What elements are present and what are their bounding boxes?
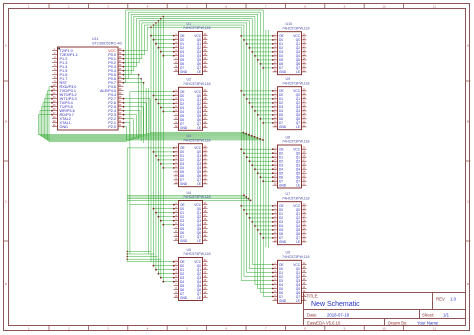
IC U1 74HC573PW,118 latch [174,32,208,75]
wire U10 D6 tap [260,63,274,65]
svg-text:LE: LE [197,126,201,130]
svg-text:GND: GND [180,239,188,243]
svg-text:LE: LE [197,182,201,186]
svg-text:TITLE:: TITLE: [306,294,319,299]
wire VCC bus [123,26,242,280]
wire U9 D4 tap [254,110,274,112]
wire P0.7 bus [123,10,264,297]
title block Drawn By cell [388,321,439,326]
wire control band C line 2 [127,253,155,254]
svg-text:74HC573PW,118: 74HC573PW,118 [183,252,211,256]
svg-text:74HC573PW,118: 74HC573PW,118 [183,82,211,86]
wire U10 D1 tap [246,43,274,45]
svg-text:GND: GND [279,240,287,244]
svg-text:74HC573PW,118: 74HC573PW,118 [282,140,310,144]
svg-text:74HC573PW,118: 74HC573PW,118 [282,26,310,30]
wire U8 D2 tap [249,160,274,162]
svg-text:74HC573PW,118: 74HC573PW,118 [282,255,310,259]
wire U10 D4 tap [254,55,274,57]
wire U8 D3 tap [251,164,273,166]
svg-text:EasyEDA V5.6.10: EasyEDA V5.6.10 [307,321,341,326]
wire U4 OE tap [130,204,175,206]
svg-text:U11: U11 [92,37,99,41]
IC U4 74HC573PW,118 latch [174,201,208,244]
wire P0.0 bus [123,24,244,276]
svg-text:GND: GND [279,299,287,303]
wire U2 D3 tap [160,107,175,109]
svg-text:LE: LE [296,299,300,303]
wire P3.0 net [49,86,127,142]
svg-text:10: 10 [382,4,386,8]
wire control band C line 3 [127,256,158,257]
wire U9 OE tap [240,90,273,92]
svg-text:74HC573PW,118: 74HC573PW,118 [183,195,211,199]
wire bus line [146,88,148,254]
wire control band B line 3 [127,198,249,200]
wire U5 OE tap [127,261,175,263]
svg-text:GND: GND [180,182,188,186]
wire U10 D7 tap [262,67,273,69]
wire U1 D1 tap [155,43,175,45]
svg-text:GND: GND [180,70,188,74]
wire P2.6 net [123,102,248,135]
title block outline [304,293,466,326]
wire U5 D1 tap [155,269,175,271]
wire U10 D5 tap [257,59,274,61]
wire U9 D1 tap [246,98,274,100]
wire P3.7 net [39,114,151,135]
wire U8 D6 tap [260,176,274,178]
wire U9 D6 tap [260,118,274,120]
wire U4 D1 tap [155,212,175,214]
svg-text:A: A [467,43,469,47]
wire U7 D7 tap [262,237,273,239]
wire U7 OE tap [240,205,273,207]
wire U8 D0 tap [243,152,274,154]
IC U9 74HC573PW,118 latch [273,87,307,130]
svg-text:11: 11 [433,4,436,8]
wire control band C line 1 [127,251,152,252]
wire U6 D4 tap [255,284,274,286]
IC U10 74HC573PW,118 latch [273,32,307,75]
svg-text:GND: GND [279,70,287,74]
wire U3 D3 tap [160,163,175,165]
wire U8 D5 tap [257,172,274,174]
IC U11 STC89C52RC-40 microcontroller [52,47,124,130]
wire U6 OE tap [252,264,273,266]
wire P2.5 net [123,106,250,136]
svg-text:LE: LE [296,125,300,129]
label U2 designator [187,78,192,82]
wire U8 D1 tap [246,156,274,158]
label U7 designator [286,192,291,196]
IC U2 74HC573PW,118 latch [174,87,208,130]
title block Date row [307,312,350,317]
wire U7 D1 tap [246,213,274,215]
wire U9 D3 tap [251,106,273,108]
svg-text:11: 11 [433,326,436,330]
svg-text:LE: LE [197,70,201,74]
wire U6 D5 tap [258,288,274,290]
wire P0.5 bus [123,14,258,288]
label U3 part name [183,138,211,142]
wire P2.0 net [123,126,264,141]
wire U2 OE tap [130,91,175,93]
svg-text:LE: LE [296,240,300,244]
wire U10 D2 tap [249,47,274,49]
wire U2 D1 tap [155,99,175,101]
wire U1 D4 tap [162,55,174,57]
label U9 part name [282,81,310,85]
wire U9 D5 tap [257,114,274,116]
svg-text:2018-07-18: 2018-07-18 [327,312,350,317]
wire U7 D5 tap [257,229,274,231]
svg-text:10: 10 [382,326,386,330]
svg-text:Date:: Date: [307,312,317,317]
label U7 part name [282,196,310,200]
title block Sheet cell [422,312,450,317]
wire P2.3 net [123,114,256,138]
wire U8 D7 tap [262,180,273,182]
wire P2.4 net [123,110,253,137]
wire U4 D2 tap [158,216,175,218]
wire U4 D4 tap [162,224,174,226]
wire U9 D2 tap [249,102,274,104]
wire P3.2 net [46,94,134,140]
wire U6 D1 tap [247,272,274,274]
wire U10 OE tap [240,35,273,37]
wire U3 D0 tap [153,151,175,153]
wire P3.6 net [40,110,147,136]
wire U1 D2 tap [158,47,175,49]
svg-text:LE: LE [197,239,201,243]
wire U7 D4 tap [254,225,274,227]
wire control band C line 4 [127,259,161,260]
svg-text:P2.0: P2.0 [108,125,116,129]
label U8 designator [286,135,291,139]
wire U2 D0 tap [153,95,175,97]
wire U6 D3 tap [241,280,273,282]
wire P2.1 net [123,122,262,140]
label U5 part name [183,252,211,256]
label U1 part name [183,26,211,30]
wire P2.7 net [123,98,245,134]
wire P0.1 bus [123,22,247,272]
wire U5 D4 tap [162,281,174,283]
label U2 part name [183,82,211,86]
svg-text:LE: LE [296,70,300,74]
wire U8 OE tap [240,148,273,150]
svg-text:REV: REV [436,297,445,302]
wire P0.4 bus [123,16,255,285]
svg-text:74HC573PW,118: 74HC573PW,118 [282,81,310,85]
label U3 designator [187,134,192,138]
wire U6 D0 tap [249,268,273,270]
svg-text:GND: GND [279,125,287,129]
wire U9 D0 tap [243,94,274,96]
label U10 designator [286,22,293,26]
wire P3.5 net [42,106,144,137]
IC U7 74HC573PW,118 latch [273,202,307,245]
IC U5 74HC573PW,118 latch [174,258,208,301]
label U11 part name [92,42,122,46]
wire U7 D6 tap [260,233,274,235]
label U10 part name [282,26,310,30]
svg-text:A: A [5,43,7,47]
wire U2 D4 tap [162,111,174,113]
label U5 designator [187,248,192,252]
wire U7 D2 tap [249,217,274,219]
wire control band B line 2 [127,196,247,198]
label U4 part name [183,195,211,199]
wire U10 D0 tap [243,39,274,41]
svg-text:1/1: 1/1 [443,312,450,317]
IC U8 74HC573PW,118 latch [273,145,307,188]
svg-text:LE: LE [296,184,300,188]
wire U9 D7 tap [262,122,273,124]
wire U1 D0 tap [153,39,175,41]
label U11 designator [92,37,99,41]
wire U6 D7 tap [263,296,273,298]
wire U5 D0 tap [153,265,175,267]
wire P2.2 net [123,118,259,139]
label U1 designator [187,22,192,26]
wire U10 D3 tap [251,51,273,53]
svg-text:Your Name: Your Name [417,321,439,326]
label U4 designator [187,191,192,195]
wire control band B line 4 [127,200,251,202]
wire U3 D4 tap [162,167,174,169]
svg-text:GND: GND [60,125,69,129]
svg-text:74HC573PW,118: 74HC573PW,118 [282,196,310,200]
svg-text:B: B [5,120,7,124]
wire U6 D2 tap [244,276,274,278]
title block REV label [436,297,457,302]
wire U3 OE tap [127,147,175,149]
wire P3.4 net [43,102,140,138]
wire U5 D2 tap [158,273,175,275]
label U9 designator [286,77,291,81]
title block title text [311,301,360,308]
svg-text:74HC573PW,118: 74HC573PW,118 [183,138,211,142]
wire U3 D2 tap [158,159,175,161]
title block TITLE label [306,294,319,299]
wire U2 D2 tap [158,103,175,105]
wire P3.3 net [45,98,137,139]
label U6 part name [282,255,310,259]
wire U1 D3 tap [160,51,175,53]
IC U3 74HC573PW,118 latch [174,144,208,187]
wire control band B line 1 [127,194,245,196]
title block EasyEDA version [307,321,341,326]
wire P0.3 bus [123,18,253,278]
wire P0.2 bus [123,20,250,274]
wire U4 D3 tap [160,220,175,222]
svg-text:1.0: 1.0 [450,297,457,302]
wire U6 D6 tap [260,292,273,294]
svg-text:Sheet:: Sheet: [422,312,434,317]
wire U4 D0 tap [153,208,175,210]
svg-text:GND: GND [180,126,188,130]
wire U7 D0 tap [243,209,274,211]
svg-text:LE: LE [197,296,201,300]
wire P3.1 net [48,90,131,141]
svg-text:GND: GND [279,184,287,188]
svg-text:Drawn By:: Drawn By: [388,321,407,326]
wire bus line [266,30,269,248]
wire U8 D4 tap [254,168,274,170]
wire U1 OE tap [150,35,175,37]
IC U6 74HC573PW,118 latch [273,260,307,303]
label U8 part name [282,140,310,144]
svg-text:STC89C52RC-40: STC89C52RC-40 [92,42,122,46]
svg-text:74HC573PW,118: 74HC573PW,118 [183,26,211,30]
label U6 designator [286,251,291,255]
wire OE control vertical A [127,92,130,262]
svg-text:B: B [467,120,469,124]
svg-text:New Schematic: New Schematic [311,301,360,308]
wire U3 D1 tap [155,155,175,157]
wire P0.6 bus [123,12,261,292]
wire U5 D3 tap [160,277,175,279]
wire U7 D3 tap [251,221,273,223]
svg-text:GND: GND [180,296,188,300]
